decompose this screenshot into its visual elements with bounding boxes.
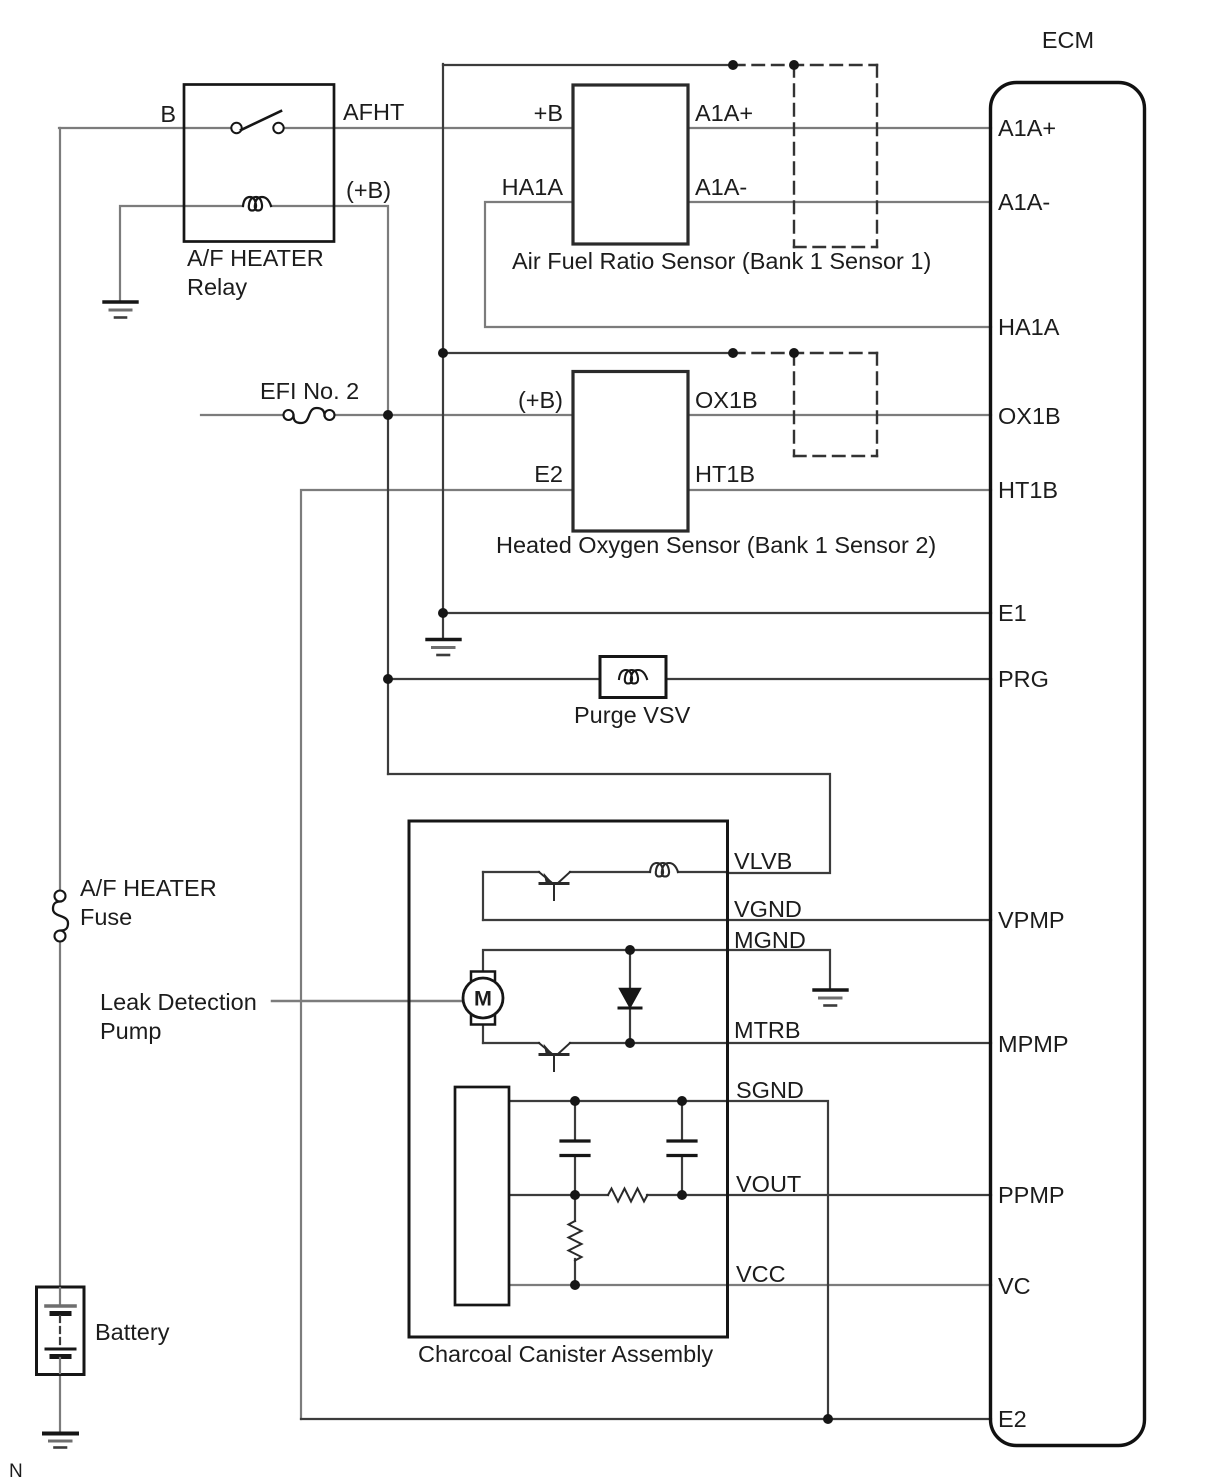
svg-text:(+B): (+B) [346, 177, 391, 203]
wire VLVB inside canister [678, 871, 728, 873]
wire HT1B: sensor2 to ECM [688, 489, 991, 491]
svg-text:M: M [474, 987, 492, 1011]
diode D1 [619, 989, 641, 1009]
svg-text:Pump: Pump [100, 1018, 161, 1044]
svg-text:PPMP: PPMP [998, 1182, 1065, 1208]
fuse F2 EFI No. 2 [284, 410, 294, 420]
svg-text:A1A+: A1A+ [695, 100, 753, 126]
canister box: Charcoal Canister Assembly [409, 821, 728, 1337]
motor M1 (leak detection pump) [463, 972, 503, 1025]
svg-text:ECM: ECM [1042, 27, 1094, 53]
svg-text:Purge VSV: Purge VSV [574, 702, 691, 728]
svg-text:OX1B: OX1B [695, 387, 758, 413]
svg-text:PRG: PRG [998, 666, 1049, 692]
svg-text:SGND: SGND [736, 1077, 804, 1103]
ground G2 (shield/E1) [427, 640, 460, 656]
sensor U1 Air Fuel Ratio Sensor box [573, 85, 688, 244]
wire PRG: purge VSV to ECM [647, 678, 991, 680]
svg-text:VLVB: VLVB [734, 848, 792, 874]
wire (+B): relay coil output [271, 206, 388, 414]
svg-text:HA1A: HA1A [998, 314, 1060, 340]
svg-text:AFHT: AFHT [343, 99, 404, 125]
wire (+B) sensor2 [335, 414, 574, 416]
svg-text:HT1B: HT1B [695, 461, 755, 487]
svg-text:MGND: MGND [734, 927, 806, 953]
svg-text:A/F HEATER: A/F HEATER [187, 245, 324, 271]
inductor L2 (valve coil) [650, 863, 678, 877]
svg-text:N: N [9, 1461, 23, 1482]
wire MTRB row to ECM MPMP [482, 1024, 484, 1043]
wire B to relay switch [59, 127, 231, 129]
wire E2 sensor2 to bottom rail [301, 490, 573, 1419]
svg-text:A1A-: A1A- [695, 174, 747, 200]
wire HA1A branch [485, 202, 991, 327]
wire resistor2 leads [574, 1195, 576, 1221]
wire cap2 leads [681, 1101, 683, 1140]
svg-text:(+B): (+B) [518, 387, 563, 413]
wire OX1B: sensor2 to ECM [688, 414, 991, 416]
wire: battery to ground [59, 1374, 61, 1432]
transistor Q1 (valve driver) [539, 872, 570, 900]
svg-text:Relay: Relay [187, 274, 247, 300]
wire: leak detection pump pointer [272, 1000, 464, 1003]
sensor U2 Heated Oxygen Sensor box [573, 372, 688, 532]
fuse F1 A/F HEATER Fuse [55, 891, 66, 902]
svg-text:Charcoal Canister Assembly: Charcoal Canister Assembly [418, 1341, 713, 1367]
svg-text:VPMP: VPMP [998, 907, 1065, 933]
svg-text:E2: E2 [998, 1406, 1027, 1432]
wire shield drain 1 [443, 64, 733, 66]
wire (+B) vertical to purge/canister [387, 413, 389, 774]
svg-text:B: B [160, 101, 176, 127]
resistor R2 (vertical) [569, 1221, 582, 1261]
svg-text:Leak Detection: Leak Detection [100, 989, 257, 1015]
purge VSV coil [619, 670, 647, 684]
wire: fuse to battery [59, 942, 61, 1289]
wire AFHT: relay to sensor1 +B [284, 127, 573, 129]
wire E1 to ECM [443, 612, 991, 614]
solenoid VSV1 Purge VSV box [600, 657, 666, 698]
shield box 2 (dashed) [733, 353, 877, 456]
wire VOUT row to ECM PPMP [509, 1194, 608, 1196]
wire A1A-: sensor1 to ECM [688, 201, 991, 203]
svg-text:VOUT: VOUT [736, 1171, 801, 1197]
relay switch blade [241, 111, 281, 130]
wire cap1 leads [574, 1101, 576, 1140]
wire EFI No.2 feed [201, 414, 284, 416]
wire A1A+: sensor1 to ECM [688, 127, 991, 129]
svg-text:A1A+: A1A+ [998, 115, 1056, 141]
svg-text:Fuse: Fuse [80, 904, 132, 930]
capacitor C1 [561, 1141, 589, 1156]
ground G3 (MGND) [814, 990, 847, 1006]
wire diode leads [629, 950, 631, 989]
battery BT1 [37, 1287, 85, 1375]
pressure sensor block (tall rect) [455, 1087, 509, 1305]
svg-text:+B: +B [534, 100, 563, 126]
svg-text:VC: VC [998, 1273, 1031, 1299]
svg-text:Air Fuel Ratio Sensor (Bank 1: Air Fuel Ratio Sensor (Bank 1 Sensor 1) [512, 248, 931, 274]
svg-text:VCC: VCC [736, 1261, 786, 1287]
wire MGND row [483, 950, 727, 972]
svg-text:EFI No. 2: EFI No. 2 [260, 378, 359, 404]
svg-text:A/F HEATER: A/F HEATER [80, 875, 217, 901]
svg-text:E2: E2 [534, 461, 563, 487]
ground G1 (relay coil) [104, 302, 137, 318]
ground G4 (battery) [44, 1434, 77, 1448]
wire: VLVB left drop to VGND [482, 872, 484, 920]
relay switch contacts [231, 123, 241, 133]
wire: relay coil left to ground drop [120, 206, 243, 301]
svg-text:Heated Oxygen Sensor (Bank 1 S: Heated Oxygen Sensor (Bank 1 Sensor 2) [496, 532, 936, 558]
wire SGND to E2 rail [727, 1101, 828, 1419]
svg-text:MPMP: MPMP [998, 1031, 1069, 1057]
wire B: battery feed left vertical [59, 128, 61, 891]
wire E2 rail to ECM [301, 1418, 991, 1420]
wire MGND to ground [727, 950, 830, 988]
svg-text:HT1B: HT1B [998, 477, 1058, 503]
wire shield drain 2 [443, 352, 733, 354]
wire SGND row [509, 1100, 727, 1102]
wire PRG to purge VSV [388, 678, 619, 680]
wire: shield ground vertical [442, 64, 444, 637]
resistor R1 (horizontal) [608, 1189, 648, 1202]
svg-text:A1A-: A1A- [998, 189, 1050, 215]
transistor Q2 (motor driver) [539, 1043, 570, 1071]
shield box 1 (dashed) [733, 65, 877, 247]
wire VC: canister VCC to ECM [509, 1284, 991, 1286]
svg-text:Battery: Battery [95, 1319, 170, 1345]
wire VGND to ECM VPMP [483, 919, 991, 921]
relay coil L1 [243, 197, 271, 211]
capacitor C2 [668, 1141, 696, 1156]
svg-text:OX1B: OX1B [998, 403, 1061, 429]
ECM box [991, 83, 1145, 1446]
svg-text:VGND: VGND [734, 896, 802, 922]
wire VLVB feed [388, 774, 830, 873]
svg-text:HA1A: HA1A [502, 174, 564, 200]
svg-text:MTRB: MTRB [734, 1017, 801, 1043]
svg-text:E1: E1 [998, 600, 1027, 626]
relay K1 A/F HEATER Relay box [184, 85, 334, 242]
